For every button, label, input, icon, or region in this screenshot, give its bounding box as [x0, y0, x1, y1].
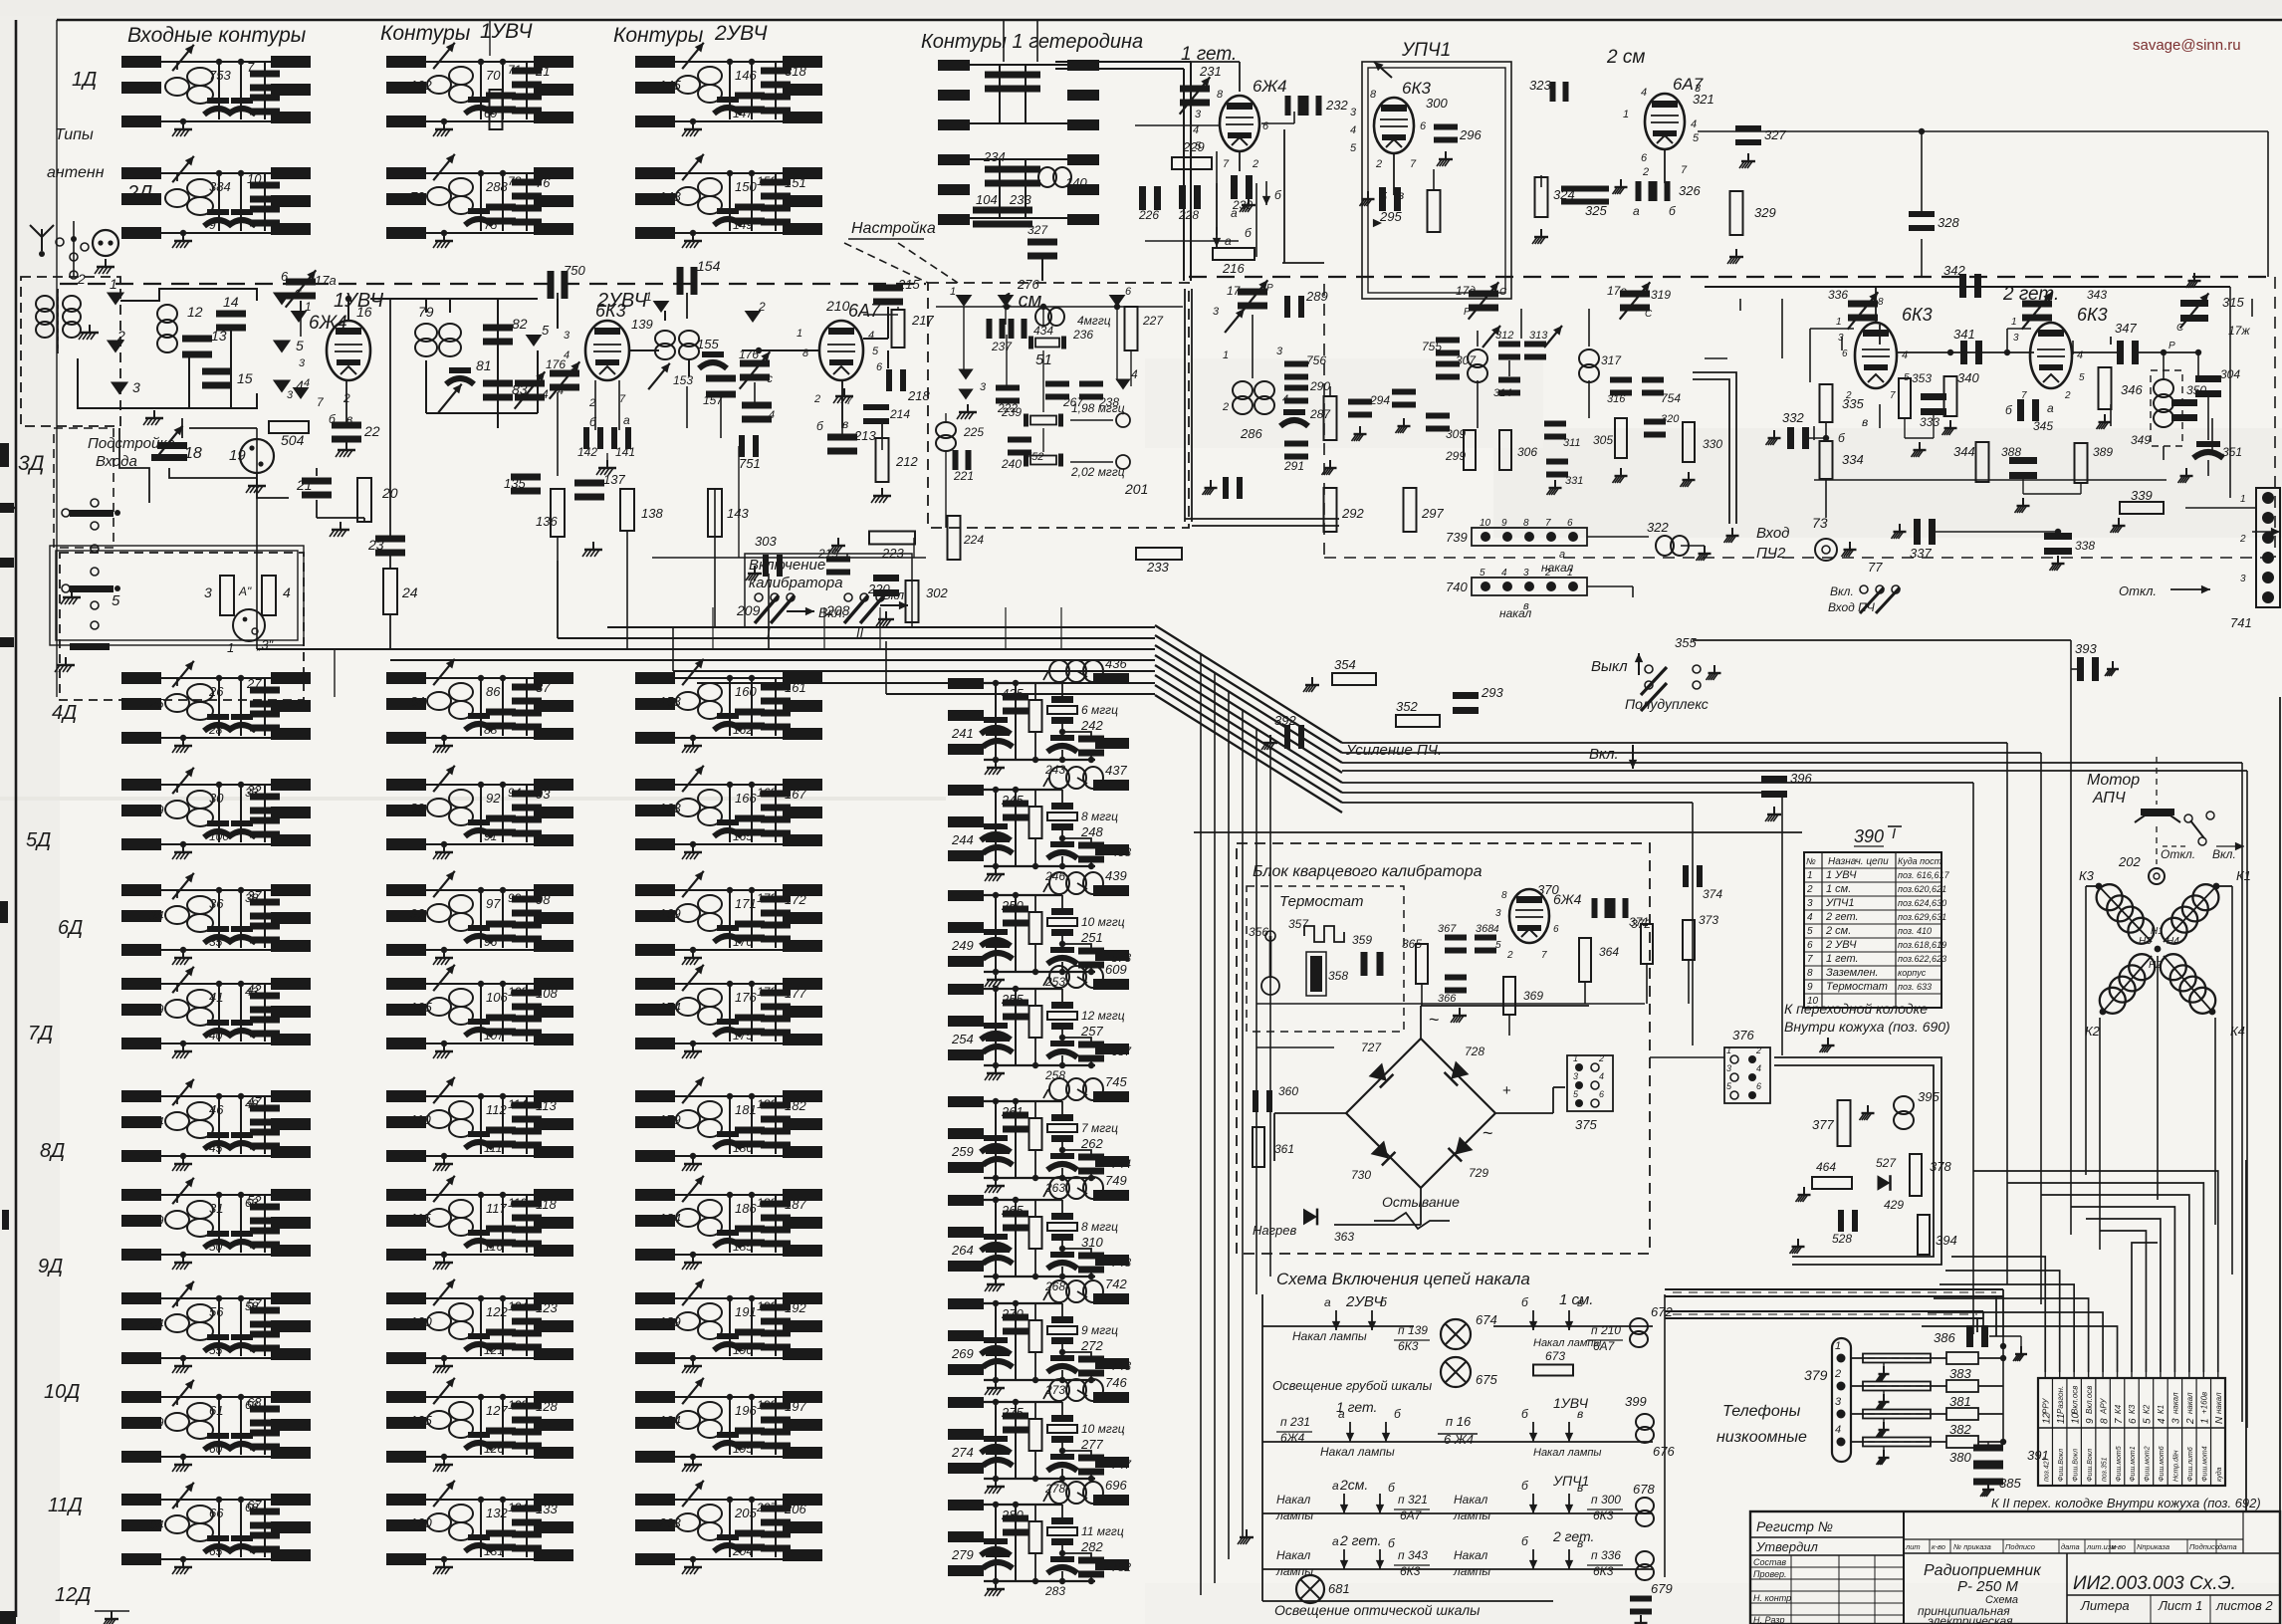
- svg-text:782: 782: [1111, 1560, 1131, 1574]
- svg-text:236: 236: [1072, 328, 1093, 342]
- svg-text:320: 320: [1661, 413, 1680, 425]
- svg-text:66: 66: [209, 1506, 224, 1520]
- svg-text:153: 153: [673, 373, 693, 387]
- svg-text:259: 259: [951, 1144, 974, 1159]
- svg-text:Фиш.мот5: Фиш.мот5: [2116, 1446, 2123, 1482]
- svg-text:поз. 616,617: поз. 616,617: [1898, 870, 1950, 880]
- svg-text:30: 30: [209, 791, 224, 806]
- svg-text:679: 679: [1651, 1581, 1673, 1596]
- svg-text:6Ж4: 6Ж4: [1553, 891, 1582, 907]
- svg-text:744: 744: [1111, 1157, 1131, 1171]
- svg-text:305: 305: [1593, 433, 1613, 447]
- svg-text:300: 300: [1426, 96, 1448, 111]
- svg-text:373: 373: [1699, 913, 1718, 927]
- svg-text:в: в: [1577, 1536, 1583, 1550]
- svg-text:3: 3: [1213, 306, 1220, 318]
- svg-text:Внутри кожуха (поз. 690): Внутри кожуха (поз. 690): [1784, 1019, 1950, 1035]
- svg-text:11 мггц: 11 мггц: [1081, 1524, 1124, 1538]
- svg-text:88: 88: [484, 723, 498, 737]
- svg-text:59: 59: [149, 1415, 163, 1430]
- svg-text:196: 196: [735, 1403, 757, 1418]
- svg-text:куда: куда: [2215, 1467, 2223, 1482]
- svg-text:4мггц: 4мггц: [1077, 314, 1111, 328]
- svg-text:2: 2: [2185, 1418, 2196, 1425]
- svg-text:142: 142: [577, 445, 597, 459]
- svg-text:3: 3: [287, 389, 294, 401]
- svg-text:742: 742: [1105, 1276, 1127, 1291]
- svg-text:220: 220: [867, 581, 890, 596]
- svg-text:Н. контр: Н. контр: [1753, 1593, 1791, 1603]
- svg-text:354: 354: [1334, 657, 1356, 672]
- svg-text:673: 673: [1545, 1349, 1565, 1363]
- svg-text:2 гет.: 2 гет.: [1825, 911, 1859, 923]
- svg-text:5: 5: [2143, 1418, 2154, 1424]
- svg-text:310: 310: [1081, 1235, 1103, 1250]
- svg-text:332: 332: [1782, 410, 1804, 425]
- svg-text:2УВЧ: 2УВЧ: [714, 22, 768, 45]
- svg-text:674: 674: [1476, 1312, 1497, 1327]
- svg-text:4: 4: [283, 584, 291, 600]
- svg-text:3: 3: [1695, 83, 1702, 95]
- svg-text:5: 5: [1480, 568, 1485, 579]
- svg-text:336: 336: [1828, 288, 1848, 302]
- svg-text:лампы: лампы: [1275, 1508, 1313, 1522]
- svg-text:186: 186: [735, 1201, 757, 1216]
- svg-text:438: 438: [1111, 845, 1131, 859]
- svg-text:5: 5: [296, 338, 304, 353]
- svg-text:14: 14: [223, 294, 239, 310]
- svg-text:181: 181: [735, 1102, 757, 1117]
- svg-text:755: 755: [1422, 340, 1442, 353]
- svg-text:2: 2: [588, 397, 595, 409]
- svg-text:а: а: [1559, 549, 1565, 561]
- svg-text:188: 188: [757, 1196, 777, 1210]
- svg-text:10: 10: [1480, 518, 1491, 529]
- svg-text:203: 203: [658, 1515, 681, 1530]
- svg-text:227: 227: [1142, 314, 1164, 328]
- svg-text:1: 1: [797, 328, 802, 340]
- svg-text:359: 359: [1352, 933, 1372, 947]
- svg-text:129: 129: [508, 1398, 528, 1412]
- svg-text:К переходной колодке: К переходной колодке: [1784, 1001, 1928, 1017]
- svg-text:Блок кварцевого калибратора: Блок кварцевого калибратора: [1253, 863, 1483, 880]
- svg-text:7: 7: [247, 60, 255, 75]
- svg-text:96: 96: [484, 935, 498, 949]
- svg-text:8 мггц: 8 мггц: [1081, 1220, 1118, 1234]
- svg-text:3: 3: [2171, 1418, 2182, 1424]
- svg-text:8: 8: [1501, 890, 1507, 901]
- svg-text:225: 225: [963, 425, 984, 439]
- svg-text:279: 279: [951, 1547, 974, 1562]
- svg-text:25: 25: [148, 696, 164, 711]
- svg-text:Включение: Включение: [749, 557, 825, 574]
- svg-text:179: 179: [659, 1112, 681, 1127]
- svg-text:149: 149: [733, 218, 753, 232]
- svg-text:6К3: 6К3: [2077, 305, 2108, 325]
- svg-text:накал: накал: [2171, 1392, 2180, 1414]
- svg-text:63: 63: [245, 1196, 259, 1210]
- svg-text:3: 3: [299, 357, 306, 369]
- svg-text:242: 242: [1080, 718, 1103, 733]
- svg-text:Усиление ПЧ.: Усиление ПЧ.: [1345, 742, 1442, 759]
- svg-text:280: 280: [1001, 1508, 1024, 1522]
- svg-text:3Д: 3Д: [18, 452, 45, 475]
- svg-text:31: 31: [209, 1201, 223, 1216]
- svg-text:295: 295: [1379, 209, 1402, 224]
- svg-text:364: 364: [1599, 945, 1619, 959]
- svg-text:а: а: [623, 413, 630, 427]
- svg-text:поз.629,631: поз.629,631: [1898, 912, 1946, 922]
- svg-text:221: 221: [953, 469, 974, 483]
- svg-text:17д: 17д: [1456, 284, 1476, 298]
- svg-text:141: 141: [615, 445, 635, 459]
- svg-text:поз.427: поз.427: [2043, 1456, 2050, 1482]
- svg-text:218: 218: [907, 388, 930, 403]
- svg-text:3: 3: [1523, 568, 1529, 579]
- svg-text:189: 189: [659, 1314, 681, 1329]
- svg-text:345: 345: [2033, 419, 2053, 433]
- svg-text:19: 19: [229, 447, 246, 464]
- svg-text:1: 1: [1567, 568, 1573, 579]
- svg-text:Накал лампы: Накал лампы: [1292, 1329, 1367, 1343]
- svg-text:7: 7: [1223, 158, 1230, 170]
- svg-text:8: 8: [802, 348, 809, 359]
- svg-text:248: 248: [1080, 824, 1103, 839]
- svg-text:2: 2: [1506, 950, 1513, 961]
- svg-text:Вкл.осв: Вкл.осв: [2070, 1386, 2079, 1414]
- svg-text:330: 330: [1703, 437, 1722, 451]
- svg-text:7 мггц: 7 мггц: [1081, 1121, 1118, 1135]
- svg-text:п 231: п 231: [1280, 1415, 1310, 1429]
- svg-text:65: 65: [209, 1544, 223, 1558]
- svg-text:Н. Разр: Н. Разр: [1753, 1615, 1785, 1624]
- svg-text:229: 229: [1182, 139, 1205, 154]
- svg-text:165: 165: [733, 829, 753, 843]
- svg-text:340: 340: [1957, 370, 1979, 385]
- svg-text:поз.618,619: поз.618,619: [1898, 940, 1946, 950]
- svg-text:70: 70: [486, 68, 501, 83]
- svg-text:2: 2: [1834, 1368, 1841, 1380]
- svg-text:6: 6: [876, 361, 883, 373]
- svg-text:224: 224: [963, 533, 984, 547]
- svg-text:9: 9: [2085, 1418, 2096, 1424]
- svg-text:379: 379: [1804, 1367, 1828, 1383]
- svg-text:5: 5: [542, 323, 550, 338]
- svg-text:134: 134: [508, 1501, 528, 1514]
- svg-text:206: 206: [784, 1502, 806, 1516]
- svg-text:Фиш.Вокл: Фиш.Вокл: [2072, 1449, 2079, 1482]
- svg-text:4: 4: [1350, 124, 1356, 136]
- svg-text:358: 358: [1328, 969, 1348, 983]
- svg-text:2 УВЧ: 2 УВЧ: [1825, 939, 1857, 951]
- svg-text:7: 7: [1541, 950, 1547, 961]
- svg-text:172: 172: [785, 892, 806, 907]
- svg-text:Р: Р: [1266, 283, 1273, 294]
- svg-text:4: 4: [1691, 118, 1697, 130]
- svg-text:3: 3: [132, 379, 140, 395]
- svg-text:Фиш.Вокл: Фиш.Вокл: [2058, 1449, 2065, 1482]
- svg-text:2: 2: [116, 328, 125, 344]
- svg-text:7: 7: [1807, 954, 1813, 965]
- svg-text:10 мггц: 10 мггц: [1081, 1422, 1125, 1436]
- svg-text:2: 2: [1222, 401, 1229, 413]
- svg-text:117: 117: [486, 1201, 507, 1216]
- svg-text:8Д: 8Д: [40, 1140, 65, 1162]
- svg-text:40: 40: [209, 1029, 223, 1043]
- svg-text:4: 4: [1131, 367, 1138, 381]
- svg-text:154: 154: [697, 258, 721, 274]
- svg-text:127: 127: [486, 1403, 508, 1418]
- svg-text:Заземлен.: Заземлен.: [1826, 967, 1879, 979]
- svg-text:389: 389: [2093, 445, 2113, 459]
- svg-text:11Д: 11Д: [48, 1495, 83, 1516]
- svg-text:34: 34: [149, 908, 163, 923]
- svg-text:8: 8: [149, 191, 157, 206]
- svg-text:128: 128: [536, 1399, 558, 1414]
- svg-text:265: 265: [1001, 1203, 1024, 1218]
- svg-text:Термостат: Термостат: [1279, 893, 1363, 910]
- svg-text:3: 3: [204, 584, 212, 600]
- svg-text:поз.624,630: поз.624,630: [1898, 898, 1946, 908]
- svg-text:216: 216: [1222, 261, 1245, 276]
- svg-text:60: 60: [209, 1442, 223, 1456]
- svg-text:Вкл.осв: Вкл.осв: [2085, 1386, 2094, 1414]
- svg-text:2: 2: [758, 300, 766, 314]
- svg-text:+: +: [1502, 1082, 1511, 1099]
- svg-text:262: 262: [1080, 1136, 1103, 1151]
- svg-text:681: 681: [1328, 1581, 1350, 1596]
- svg-text:58: 58: [245, 1299, 259, 1313]
- svg-text:29: 29: [148, 803, 163, 817]
- svg-text:23: 23: [367, 537, 384, 553]
- svg-text:233: 233: [1009, 192, 1031, 207]
- svg-text:100: 100: [209, 829, 229, 843]
- svg-text:22: 22: [363, 423, 380, 439]
- svg-text:7: 7: [1890, 390, 1896, 401]
- svg-text:2: 2: [813, 393, 820, 405]
- svg-text:741: 741: [2230, 615, 2252, 630]
- svg-text:367: 367: [1438, 923, 1457, 935]
- svg-text:12: 12: [187, 304, 203, 320]
- svg-text:17е: 17е: [1607, 284, 1627, 298]
- svg-text:17г: 17г: [1227, 284, 1246, 298]
- svg-text:Подписо: Подписо: [2189, 1542, 2219, 1551]
- svg-text:319: 319: [1651, 288, 1671, 302]
- svg-text:Радиоприемник: Радиоприемник: [1924, 1562, 2042, 1579]
- svg-text:296: 296: [1459, 127, 1482, 142]
- svg-text:Регистр №: Регистр №: [1756, 1518, 1833, 1534]
- svg-text:Н3: Н3: [2139, 936, 2152, 947]
- svg-text:1,98 мггц: 1,98 мггц: [1071, 401, 1125, 415]
- svg-text:436: 436: [1105, 656, 1127, 671]
- svg-text:388: 388: [2001, 445, 2021, 459]
- svg-text:357: 357: [1288, 917, 1309, 931]
- svg-text:226: 226: [1138, 208, 1159, 222]
- svg-text:8: 8: [1807, 968, 1813, 979]
- svg-text:4: 4: [1756, 1063, 1761, 1073]
- svg-text:6: 6: [1756, 1081, 1761, 1091]
- svg-text:3: 3: [1350, 107, 1357, 118]
- svg-text:п 210: п 210: [1591, 1323, 1621, 1337]
- svg-text:290: 290: [1309, 379, 1330, 393]
- svg-text:747: 747: [1111, 1458, 1132, 1472]
- svg-text:поз. 410: поз. 410: [1898, 926, 1932, 936]
- svg-text:89: 89: [410, 801, 424, 815]
- svg-text:72: 72: [410, 189, 425, 204]
- svg-text:6: 6: [1125, 286, 1132, 298]
- svg-text:Вход ПЧ: Вход ПЧ: [1828, 600, 1876, 614]
- svg-text:1 УВЧ: 1 УВЧ: [1826, 869, 1857, 881]
- svg-text:192: 192: [785, 1300, 806, 1315]
- svg-text:195: 195: [733, 1442, 753, 1456]
- svg-text:94: 94: [508, 786, 522, 800]
- svg-text:390: 390: [1854, 826, 1884, 846]
- svg-text:287: 287: [1309, 407, 1331, 421]
- svg-text:Настройка: Настройка: [851, 220, 936, 237]
- svg-text:2: 2: [1642, 166, 1649, 178]
- svg-text:6К3: 6К3: [1593, 1508, 1614, 1522]
- svg-text:318: 318: [785, 64, 806, 79]
- svg-text:а: а: [1324, 1295, 1331, 1309]
- svg-text:299: 299: [1445, 449, 1466, 463]
- svg-text:5: 5: [1693, 132, 1700, 144]
- svg-text:231: 231: [1199, 64, 1222, 79]
- svg-text:4Д: 4Д: [52, 702, 77, 724]
- svg-text:3: 3: [1573, 1071, 1578, 1081]
- svg-text:137: 137: [603, 472, 625, 487]
- svg-text:2 гет.: 2 гет.: [1552, 1528, 1594, 1544]
- svg-text:322: 322: [1647, 520, 1669, 535]
- svg-text:609: 609: [1105, 962, 1127, 977]
- svg-text:38: 38: [245, 891, 259, 905]
- svg-text:АПЧ: АПЧ: [2092, 790, 2126, 807]
- svg-text:45: 45: [209, 1141, 223, 1155]
- svg-text:дата: дата: [2061, 1542, 2080, 1551]
- svg-text:756: 756: [1306, 353, 1326, 367]
- svg-text:10 мггц: 10 мггц: [1081, 915, 1125, 929]
- svg-text:1 см.: 1 см.: [1826, 883, 1851, 895]
- svg-text:АРУ: АРУ: [2099, 1398, 2108, 1415]
- svg-text:4: 4: [2157, 1418, 2168, 1424]
- svg-text:264: 264: [951, 1243, 974, 1258]
- svg-text:3: 3: [1495, 908, 1501, 919]
- svg-text:292: 292: [1341, 506, 1364, 521]
- svg-text:293: 293: [1481, 685, 1503, 700]
- svg-text:198: 198: [757, 1398, 777, 1412]
- svg-text:4: 4: [1501, 568, 1507, 579]
- svg-text:6: 6: [1420, 120, 1427, 132]
- svg-text:Вкл.: Вкл.: [2212, 847, 2236, 861]
- svg-text:Фиш.мот4: Фиш.мот4: [2202, 1446, 2209, 1482]
- svg-text:331: 331: [1565, 475, 1583, 487]
- svg-text:2: 2: [1544, 568, 1551, 579]
- svg-text:361: 361: [1274, 1142, 1294, 1156]
- svg-text:поз.622,623: поз.622,623: [1898, 954, 1946, 964]
- svg-text:124: 124: [508, 1299, 528, 1313]
- svg-text:751: 751: [739, 456, 761, 471]
- svg-text:119: 119: [508, 1196, 527, 1210]
- svg-text:87: 87: [536, 680, 551, 695]
- svg-text:10Д: 10Д: [44, 1381, 80, 1403]
- svg-text:91: 91: [484, 829, 497, 843]
- svg-text:1: 1: [1835, 1340, 1841, 1352]
- svg-text:133: 133: [536, 1502, 558, 1516]
- svg-text:678: 678: [1633, 1482, 1655, 1497]
- svg-text:329: 329: [1754, 205, 1776, 220]
- svg-text:5: 5: [1350, 142, 1357, 154]
- svg-text:7: 7: [1410, 158, 1417, 170]
- svg-text:4: 4: [1193, 124, 1199, 136]
- svg-text:Телефоны: Телефоны: [1722, 1403, 1801, 1420]
- svg-text:125: 125: [410, 1413, 432, 1428]
- svg-text:334: 334: [1842, 452, 1864, 467]
- svg-text:339: 339: [2131, 488, 2153, 503]
- svg-text:Р: Р: [1464, 307, 1471, 318]
- svg-text:353: 353: [1912, 371, 1932, 385]
- svg-text:2: 2: [1375, 158, 1382, 170]
- svg-text:180: 180: [733, 1141, 753, 1155]
- svg-text:6К3: 6К3: [1398, 1339, 1419, 1353]
- svg-text:Типы: Типы: [55, 126, 94, 143]
- svg-text:15: 15: [237, 370, 253, 386]
- svg-text:136: 136: [536, 514, 558, 529]
- svg-text:41: 41: [209, 990, 223, 1005]
- svg-text:6Ж4: 6Ж4: [1253, 77, 1287, 96]
- svg-text:Контуры: Контуры: [380, 22, 471, 45]
- svg-text:3: 3: [1838, 333, 1844, 344]
- svg-text:46: 46: [209, 1102, 224, 1117]
- svg-text:395: 395: [1918, 1089, 1940, 1104]
- svg-text:245: 245: [1001, 793, 1024, 808]
- svg-text:2: 2: [1806, 884, 1813, 895]
- svg-text:А": А": [238, 584, 252, 598]
- svg-text:С: С: [1499, 287, 1507, 298]
- svg-text:корпус: корпус: [1898, 968, 1927, 978]
- svg-text:~: ~: [1483, 1123, 1493, 1143]
- svg-text:К1: К1: [2236, 868, 2251, 883]
- svg-text:в: в: [1577, 1407, 1583, 1421]
- svg-text:314: 314: [1493, 387, 1511, 399]
- svg-text:К4: К4: [2114, 1404, 2123, 1414]
- svg-text:+160в: +160в: [2200, 1392, 2209, 1414]
- svg-text:209: 209: [736, 602, 761, 618]
- svg-text:№: №: [1806, 856, 1816, 866]
- svg-text:104: 104: [976, 192, 998, 207]
- svg-text:7: 7: [1545, 518, 1551, 529]
- svg-text:729: 729: [1469, 1166, 1488, 1180]
- svg-text:6Ж4: 6Ж4: [309, 313, 347, 334]
- svg-text:113: 113: [536, 1098, 557, 1113]
- svg-text:в: в: [1862, 415, 1868, 429]
- svg-text:73: 73: [1812, 515, 1828, 531]
- svg-text:197: 197: [785, 1399, 806, 1414]
- svg-text:303: 303: [755, 534, 777, 549]
- svg-text:6: 6: [281, 269, 289, 284]
- svg-text:191: 191: [735, 1304, 757, 1319]
- svg-text:381: 381: [1949, 1394, 1971, 1409]
- svg-text:Накал лампы: Накал лампы: [1533, 1447, 1602, 1459]
- svg-text:335: 335: [1842, 396, 1864, 411]
- svg-text:Выкл: Выкл: [1591, 658, 1628, 675]
- svg-text:696: 696: [1105, 1478, 1127, 1493]
- svg-text:384: 384: [209, 179, 231, 194]
- svg-text:поз.351: поз.351: [2101, 1457, 2108, 1482]
- svg-text:429: 429: [1884, 1198, 1904, 1212]
- svg-text:1: 1: [1573, 1053, 1578, 1063]
- svg-text:лампы: лампы: [1453, 1508, 1490, 1522]
- svg-text:Н1: Н1: [2151, 926, 2164, 937]
- svg-text:Фиш.Вокл: Фиш.Вокл: [2087, 1449, 2094, 1482]
